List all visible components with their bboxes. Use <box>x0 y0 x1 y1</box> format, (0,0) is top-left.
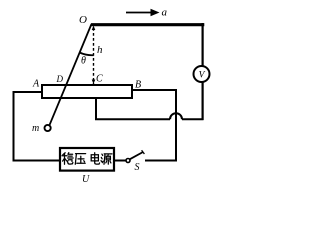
svg-text:θ: θ <box>81 56 86 67</box>
svg-text:h: h <box>97 44 103 56</box>
svg-text:A: A <box>32 79 40 90</box>
svg-text:S: S <box>135 162 140 173</box>
svg-text:O: O <box>79 14 87 26</box>
svg-text:U: U <box>82 174 90 185</box>
svg-text:B: B <box>135 80 141 91</box>
svg-text:C: C <box>96 74 103 85</box>
svg-text:m: m <box>32 123 39 134</box>
svg-text:D: D <box>56 74 64 84</box>
svg-text:a: a <box>162 7 168 19</box>
